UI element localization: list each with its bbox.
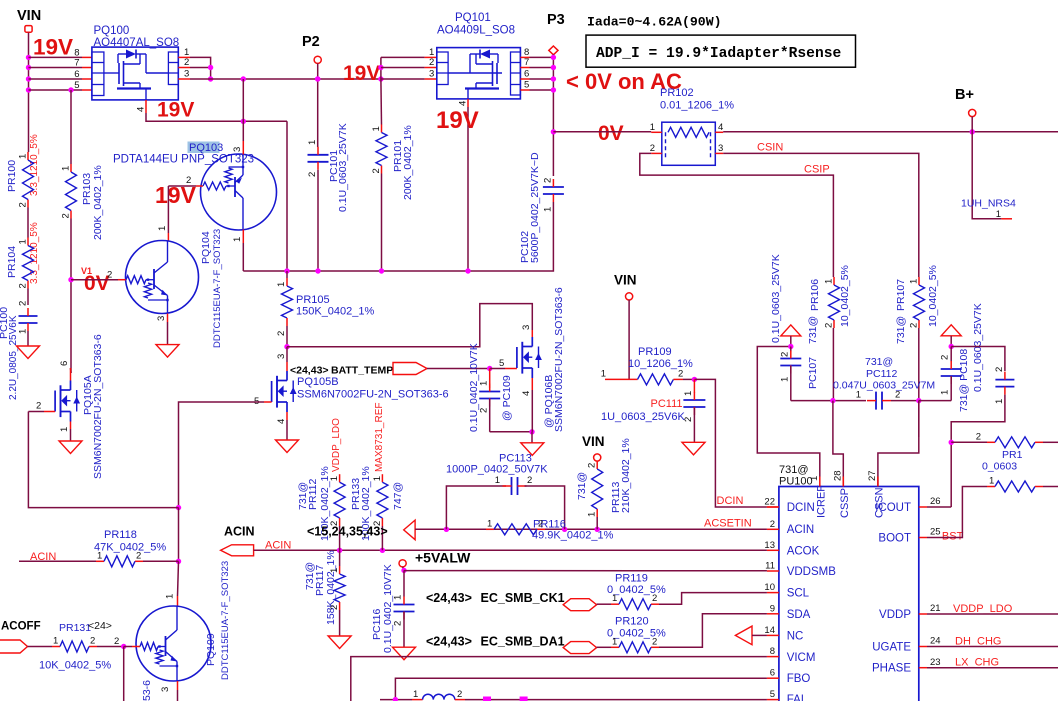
port triangle (ACSETIN) — [404, 520, 415, 540]
svg-text:1: 1 — [856, 390, 861, 401]
svg-text:19V: 19V — [436, 107, 479, 134]
svg-text:8: 8 — [770, 646, 775, 657]
svg-text:2: 2 — [683, 417, 694, 422]
svg-text:DDTC115EUA-7-F_SOT323: DDTC115EUA-7-F_SOT323 — [212, 229, 223, 348]
svg-text:1: 1 — [18, 239, 29, 244]
svg-text:PR109: PR109 — [638, 346, 672, 358]
svg-text:2.2U_0805_25V6K: 2.2U_0805_25V6K — [8, 315, 19, 400]
svg-text:0.1U_0402_10V7K: 0.1U_0402_10V7K — [382, 564, 394, 653]
wire PR101 to rail — [381, 174, 383, 272]
svg-text:2: 2 — [824, 323, 835, 328]
svg-text:2: 2 — [114, 636, 119, 647]
svg-text:731@ PC108: 731@ PC108 — [958, 349, 970, 412]
svg-text:5: 5 — [499, 358, 504, 369]
wire PR104 to PC100 — [27, 289, 29, 306]
svg-text:24: 24 — [930, 636, 941, 647]
wire PC112 to CSSN rail — [891, 400, 919, 402]
wire PQ104 emitter pin3 to ground — [167, 314, 169, 323]
svg-text:1: 1 — [372, 476, 383, 481]
svg-text:10_0402_5%: 10_0402_5% — [839, 265, 851, 327]
svg-text:PR112: PR112 — [307, 479, 319, 510]
wire PR118 node to PQ109 collector — [178, 561, 179, 596]
svg-text:3: 3 — [184, 69, 189, 80]
svg-text:CSSP: CSSP — [839, 488, 851, 518]
svg-text:ACOFF: ACOFF — [1, 621, 41, 633]
svg-text:2: 2 — [36, 401, 41, 412]
svg-text:2: 2 — [479, 408, 490, 413]
ground (PC116) — [393, 647, 416, 660]
svg-text:FAI: FAI — [787, 694, 804, 701]
svg-text:PR131: PR131 — [59, 622, 91, 634]
svg-text:ACIN: ACIN — [224, 525, 255, 539]
port flag ACIN — [221, 545, 254, 556]
svg-text:4: 4 — [136, 107, 147, 112]
pin CSSP (28) — [842, 477, 844, 487]
svg-text:1U_0603_25V6K: 1U_0603_25V6K — [601, 411, 685, 423]
net CSIN from pin3 — [715, 152, 723, 154]
svg-text:1: 1 — [53, 636, 58, 647]
svg-text:27: 27 — [867, 470, 878, 481]
svg-text:1: 1 — [683, 391, 694, 396]
wire CSSP jog to PU100 pin 28 — [833, 401, 843, 487]
port flag ACOFF — [0, 640, 28, 653]
svg-text:4: 4 — [458, 101, 469, 106]
wire PR103 to 0V node — [70, 219, 72, 374]
svg-text:4: 4 — [718, 122, 723, 133]
svg-text:2: 2 — [18, 202, 29, 207]
svg-text:2: 2 — [329, 605, 340, 610]
svg-text:FBO: FBO — [787, 673, 811, 685]
svg-text:PQ105B: PQ105B — [297, 376, 339, 388]
svg-text:10K_0402_5%: 10K_0402_5% — [39, 660, 111, 672]
svg-text:<24,43>: <24,43> — [290, 365, 329, 377]
svg-text:2: 2 — [895, 390, 900, 401]
svg-text:ICOUT: ICOUT — [875, 502, 911, 514]
svg-text:1: 1 — [276, 282, 287, 287]
svg-text:0.1U_0402_10V7K: 0.1U_0402_10V7K — [468, 343, 480, 432]
wire ACIN rail to PU100 ACOK — [254, 549, 767, 551]
svg-text:AO4409L_SO8: AO4409L_SO8 — [437, 25, 515, 37]
svg-text:ACSETIN: ACSETIN — [704, 518, 752, 530]
nc arrow (pin14) — [735, 626, 752, 645]
svg-text:6: 6 — [524, 69, 529, 80]
power arrow (PC108) — [941, 325, 961, 336]
resistor PR103 200K_0402_1% — [70, 90, 72, 164]
wire PC101 to rail — [317, 170, 319, 271]
svg-text:NC: NC — [787, 631, 804, 643]
pin ICREF (1) — [819, 477, 821, 487]
svg-text:1: 1 — [393, 595, 404, 600]
svg-text:PHASE: PHASE — [872, 663, 911, 675]
svg-text:V1: V1 — [81, 266, 92, 276]
wire PQ105B source to ground — [286, 412, 288, 420]
svg-text:P3: P3 — [547, 12, 565, 28]
svg-text:7: 7 — [74, 58, 79, 69]
wire PQ100 right pins — [178, 56, 190, 58]
svg-text:4: 4 — [276, 419, 287, 424]
svg-text:<24,43>: <24,43> — [426, 635, 472, 649]
svg-text:0.1U_0603_25V7K: 0.1U_0603_25V7K — [770, 254, 782, 343]
svg-text:PR107: PR107 — [895, 279, 907, 311]
wire PQ103 base to PQ104 collector — [167, 186, 169, 233]
svg-text:2: 2 — [18, 283, 29, 288]
svg-text:1: 1 — [329, 476, 340, 481]
svg-text:3: 3 — [429, 69, 434, 80]
svg-text:7: 7 — [524, 57, 529, 68]
svg-text:2: 2 — [543, 178, 554, 183]
svg-text:21: 21 — [930, 603, 941, 614]
svg-text:0V: 0V — [598, 122, 624, 145]
transistor PQ103 PDTA144EU PNP_SOT323 — [188, 142, 220, 154]
svg-text:BOOT: BOOT — [878, 533, 911, 545]
ground (PQ104) — [156, 345, 179, 358]
svg-text:10_1206_1%: 10_1206_1% — [628, 358, 693, 370]
svg-text:1: 1 — [495, 475, 500, 486]
wire PR119 to SCL pin10 — [659, 593, 767, 605]
svg-text:2: 2 — [429, 57, 434, 68]
svg-text:1: 1 — [487, 518, 492, 529]
svg-text:1: 1 — [809, 476, 820, 481]
svg-text:PR104: PR104 — [6, 246, 18, 278]
svg-text:1: 1 — [157, 226, 168, 231]
svg-text:1: 1 — [97, 550, 102, 561]
pin VICM (8) — [767, 656, 779, 658]
ground (PR117) — [328, 636, 351, 649]
svg-text:2: 2 — [652, 593, 657, 604]
svg-text:5: 5 — [524, 80, 529, 91]
wire gate net junction down to PR118 row — [176, 505, 181, 510]
pin DCIN (22) — [767, 506, 779, 508]
svg-text:2: 2 — [90, 636, 95, 647]
svg-text:23: 23 — [930, 657, 941, 668]
wire PQ103 emitter pin3 — [242, 79, 244, 141]
svg-text:6: 6 — [770, 668, 775, 679]
wire P2 down — [317, 63, 319, 147]
svg-text:PC107: PC107 — [807, 357, 819, 389]
svg-text:25: 25 — [930, 527, 941, 538]
wire PQ100 pin8 row — [29, 56, 83, 58]
svg-text:<24,43>: <24,43> — [426, 591, 472, 605]
wire PQ109 emitter pin3 (clipped) — [177, 681, 179, 690]
svg-text:1: 1 — [329, 568, 340, 573]
svg-text:6: 6 — [74, 69, 79, 80]
svg-text:200K_0402_1%: 200K_0402_1% — [92, 165, 104, 240]
svg-text:VDDP: VDDP — [879, 609, 911, 621]
svg-text:@ PC109: @ PC109 — [501, 375, 513, 421]
wire CSSP rail — [791, 400, 866, 402]
svg-text:0.047U_0603_25V7M: 0.047U_0603_25V7M — [833, 380, 935, 392]
svg-text:22: 22 — [764, 497, 775, 508]
svg-text:19V: 19V — [155, 182, 197, 208]
svg-text:47K_0402_5%: 47K_0402_5% — [94, 542, 166, 554]
svg-text:SDA: SDA — [787, 609, 811, 621]
net CSIP from pin2 — [651, 152, 662, 154]
pin BOOT (25) net BST — [919, 537, 927, 539]
svg-text:5: 5 — [770, 689, 775, 700]
svg-text:731@: 731@ — [865, 356, 893, 368]
svg-text:2: 2 — [770, 519, 775, 530]
svg-text:VIN: VIN — [17, 8, 41, 24]
ground (PC100) — [17, 346, 40, 359]
svg-text:1: 1 — [824, 279, 835, 284]
svg-text:1UH_NRS4: 1UH_NRS4 — [961, 198, 1016, 210]
pin FBO (6) — [767, 677, 779, 679]
svg-text:2: 2 — [136, 550, 141, 561]
wire node to PQ106B drain (loop) — [287, 304, 532, 347]
svg-text:UGATE: UGATE — [872, 642, 911, 654]
svg-text:PR106: PR106 — [809, 279, 821, 311]
svg-text:13: 13 — [764, 540, 775, 551]
svg-text:2: 2 — [650, 143, 655, 154]
svg-text:10: 10 — [764, 582, 775, 593]
pin SCL (10) — [767, 592, 779, 594]
svg-text:0.1U_0603_25V7K: 0.1U_0603_25V7K — [972, 303, 984, 392]
svg-text:2: 2 — [909, 323, 920, 328]
svg-text:BST: BST — [942, 531, 964, 543]
svg-text:1: 1 — [413, 689, 418, 700]
svg-text:PQ104: PQ104 — [200, 231, 212, 264]
svg-text:3: 3 — [232, 147, 243, 152]
port flag BATT_TEMP — [393, 363, 427, 375]
net DCIN wire to PU100 pin22 — [694, 379, 767, 507]
svg-text:DH_CHG: DH_CHG — [955, 636, 1001, 648]
svg-text:49.9K_0402_1%: 49.9K_0402_1% — [532, 530, 614, 542]
resistor ICOUT series (clipped) — [951, 441, 987, 443]
svg-text:158K_0402_1%: 158K_0402_1% — [325, 550, 337, 625]
pin FAI (5) — [767, 699, 779, 701]
box ADP_I formula — [586, 35, 856, 67]
svg-text:3: 3 — [521, 325, 532, 330]
ground (PC111) — [682, 442, 705, 455]
svg-text:ADP_I = 19.9*Iadapter*Rsense: ADP_I = 19.9*Iadapter*Rsense — [596, 46, 841, 62]
svg-text:2: 2 — [678, 369, 683, 380]
svg-text:VIN: VIN — [582, 434, 605, 449]
wire PQ100 pin6 row — [29, 78, 83, 80]
svg-text:2: 2 — [107, 270, 112, 281]
svg-text:1: 1 — [61, 166, 72, 171]
svg-text:3: 3 — [160, 687, 171, 692]
svg-text:19V: 19V — [157, 99, 194, 122]
svg-text:P2: P2 — [302, 34, 320, 50]
port hexagon EC_SMB_CK1 — [563, 599, 596, 611]
svg-text:210K_0402_1%: 210K_0402_1% — [620, 438, 632, 513]
svg-text:1: 1 — [232, 237, 243, 242]
svg-text:26: 26 — [930, 496, 941, 507]
svg-text:2: 2 — [780, 352, 791, 357]
svg-text:10_0402_5%: 10_0402_5% — [927, 265, 939, 327]
svg-text:PR1: PR1 — [1002, 449, 1023, 461]
svg-text:11: 11 — [765, 561, 775, 572]
svg-text:SSM6N7002FU-2N_SOT363-6: SSM6N7002FU-2N_SOT363-6 — [297, 389, 449, 401]
svg-text:1: 1 — [371, 126, 382, 131]
svg-text:2: 2 — [371, 168, 382, 173]
svg-text:1: 1 — [601, 369, 606, 380]
pin ICOUT (26) — [919, 506, 927, 508]
svg-text:150K_0402_1%: 150K_0402_1% — [296, 306, 375, 318]
pin ACIN (2) — [767, 528, 779, 530]
svg-text:B+: B+ — [955, 87, 974, 103]
svg-text:1000P_0402_50V7K: 1000P_0402_50V7K — [446, 464, 548, 476]
wire VICM net (pin8) — [351, 657, 767, 701]
svg-text:CSIP: CSIP — [804, 164, 830, 176]
svg-text:6: 6 — [59, 361, 70, 366]
wire FAI bottom rail + inductor (clipped) — [380, 699, 412, 701]
ground (PQ106B source) — [521, 443, 544, 456]
svg-text:VIN: VIN — [614, 273, 637, 288]
svg-text:0.01_1206_1%: 0.01_1206_1% — [660, 100, 734, 112]
svg-text:28: 28 — [833, 470, 844, 481]
svg-text:1: 1 — [18, 154, 29, 159]
wire 19V rail down to BATT rail — [286, 121, 288, 271]
ground (PQ105B) — [276, 440, 299, 453]
svg-text:1: 1 — [307, 140, 318, 145]
wire PQ103 collector pin1 to rail — [242, 230, 244, 244]
wire PR100 to PR104 — [27, 208, 29, 238]
svg-text:MAX8731_REF: MAX8731_REF — [374, 403, 385, 472]
svg-text:731@: 731@ — [576, 472, 588, 500]
wire ICREF loop to PC107 top — [757, 347, 820, 477]
svg-text:SCL: SCL — [787, 588, 810, 600]
pin VDDP (21) net VDDP_LDO — [919, 613, 927, 615]
svg-text:2: 2 — [393, 621, 404, 626]
pin SDA (9) — [767, 613, 779, 615]
svg-text:SSM6N7002FU-2N_SOT363-6: SSM6N7002FU-2N_SOT363-6 — [553, 287, 565, 432]
wire PQ101 pin4 — [467, 99, 469, 107]
pin ACOK (13) — [767, 549, 779, 551]
svg-text:9: 9 — [770, 603, 775, 614]
wire +5VALW to VDDSMB pin11 — [404, 570, 767, 572]
wire PQ109 base — [124, 646, 132, 648]
svg-text:PQ101: PQ101 — [455, 12, 491, 24]
wire PR105 to node — [286, 326, 288, 347]
svg-text:DDTC115EUA-7-F_SOT323: DDTC115EUA-7-F_SOT323 — [220, 561, 231, 680]
svg-text:EC_SMB_DA1: EC_SMB_DA1 — [481, 635, 565, 649]
svg-text:2: 2 — [538, 518, 543, 529]
svg-text:2: 2 — [652, 636, 657, 647]
svg-text:CSIN: CSIN — [757, 142, 783, 154]
wire stub below PR131 junction — [123, 647, 125, 701]
resistor BOOT series (clipped) — [987, 486, 995, 488]
svg-text:PDTA144EU PNP_SOT323: PDTA144EU PNP_SOT323 — [113, 154, 254, 166]
svg-text:Iada=0~4.62A(90W): Iada=0~4.62A(90W) — [587, 15, 722, 30]
port hexagon EC_SMB_DA1 — [563, 642, 596, 654]
svg-text:LX_CHG: LX_CHG — [955, 657, 999, 669]
svg-text:1: 1 — [587, 512, 598, 517]
svg-text:747@: 747@ — [392, 482, 404, 510]
svg-text:1: 1 — [940, 390, 951, 395]
power arrow (PC107) — [781, 325, 801, 336]
svg-text:PR119: PR119 — [615, 573, 648, 585]
svg-text:2: 2 — [61, 213, 72, 218]
svg-text:1: 1 — [909, 279, 920, 284]
wire BATT_TEMP to PQ106B gate — [427, 368, 490, 370]
wire PC109 to PQ106B source / ground — [490, 431, 532, 433]
svg-text:+5VALW: +5VALW — [415, 550, 471, 566]
wire PQ105A source to ground — [70, 422, 72, 430]
svg-text:PC112: PC112 — [866, 368, 897, 380]
svg-text:1: 1 — [479, 381, 490, 386]
wire FBO net (pin6) — [395, 678, 767, 699]
pin UGATE (24) net DH_CHG — [919, 646, 927, 648]
svg-text:2: 2 — [18, 301, 29, 306]
ground (PQ105A) — [59, 441, 82, 454]
svg-text:PQ100: PQ100 — [94, 25, 130, 37]
svg-text:DCIN: DCIN — [787, 502, 815, 514]
svg-text:ACIN: ACIN — [787, 524, 814, 536]
wire PQ100 pin5 row — [29, 89, 83, 91]
svg-text:1: 1 — [543, 207, 554, 212]
svg-text:1: 1 — [612, 636, 617, 647]
svg-text:PR120: PR120 — [615, 616, 649, 628]
svg-text:3: 3 — [156, 316, 167, 321]
svg-text:2: 2 — [527, 475, 532, 486]
svg-text:1: 1 — [165, 594, 176, 599]
svg-text:14: 14 — [764, 625, 775, 636]
svg-text:5600P_0402_25V7K~D: 5600P_0402_25V7K~D — [529, 152, 541, 263]
svg-text:53-6: 53-6 — [141, 680, 153, 701]
svg-text:731@: 731@ — [807, 316, 819, 344]
svg-text:731@: 731@ — [895, 316, 907, 344]
svg-text:PC111: PC111 — [651, 398, 683, 410]
wire CSSN jog to PU100 pin 27 — [918, 401, 920, 437]
svg-text:PR102: PR102 — [660, 87, 694, 99]
svg-text:2: 2 — [940, 355, 951, 360]
svg-text:EC_SMB_CK1: EC_SMB_CK1 — [481, 591, 565, 605]
svg-text:VICM: VICM — [787, 652, 816, 664]
svg-text:BATT_TEMP: BATT_TEMP — [331, 365, 393, 377]
wire PR120 to SDA pin9 — [659, 614, 767, 648]
svg-text:19V: 19V — [343, 62, 380, 85]
svg-text:5: 5 — [74, 80, 79, 91]
svg-text:1: 1 — [18, 329, 29, 334]
svg-text:<15,24,35,43>: <15,24,35,43> — [307, 525, 388, 539]
resistor PR101 200K_0402_1% — [380, 79, 383, 125]
svg-text:DCIN: DCIN — [717, 495, 744, 507]
svg-text:19V: 19V — [33, 35, 73, 60]
svg-text:ICREF: ICREF — [816, 485, 828, 518]
svg-text:3: 3 — [276, 354, 287, 359]
wire 19V node verticals to PQ101 pins — [380, 57, 382, 79]
wire ACSETIN rail — [415, 528, 767, 530]
junction squares at bottom edge — [483, 697, 491, 701]
wire 19V horizontal rail y=79 — [190, 78, 381, 80]
svg-text:4: 4 — [521, 391, 532, 396]
wire P3 vertical — [552, 54, 554, 176]
svg-text:1: 1 — [994, 399, 1005, 404]
svg-text:PR100: PR100 — [6, 160, 18, 192]
svg-text:PR105: PR105 — [296, 294, 330, 306]
wire PR102 pin4 to B+ rail — [715, 131, 723, 133]
svg-text:0.1U_0603_25V7K: 0.1U_0603_25V7K — [337, 123, 349, 212]
wire PQ100 pin7 row — [29, 67, 83, 69]
svg-text:SSM6N7002FU-2N_SOT363-6: SSM6N7002FU-2N_SOT363-6 — [92, 334, 104, 479]
svg-text:3: 3 — [718, 143, 723, 154]
svg-text:1: 1 — [996, 209, 1001, 220]
pin NC (14) — [767, 634, 779, 636]
svg-text:2: 2 — [184, 57, 189, 68]
svg-text:PR118: PR118 — [104, 529, 137, 541]
wire VIN vertical — [28, 33, 30, 152]
svg-text:0_0603: 0_0603 — [982, 461, 1017, 473]
svg-text:2: 2 — [976, 432, 981, 443]
wire B+ to inductor — [972, 132, 1001, 219]
svg-text:3.3_1210_5%: 3.3_1210_5% — [29, 222, 40, 284]
svg-text:2: 2 — [994, 367, 1005, 372]
svg-text:VDDP_LDO: VDDP_LDO — [953, 603, 1013, 615]
svg-text:2: 2 — [587, 463, 598, 468]
svg-text:1: 1 — [780, 377, 791, 382]
svg-text:VDDP_LDO: VDDP_LDO — [331, 418, 342, 472]
